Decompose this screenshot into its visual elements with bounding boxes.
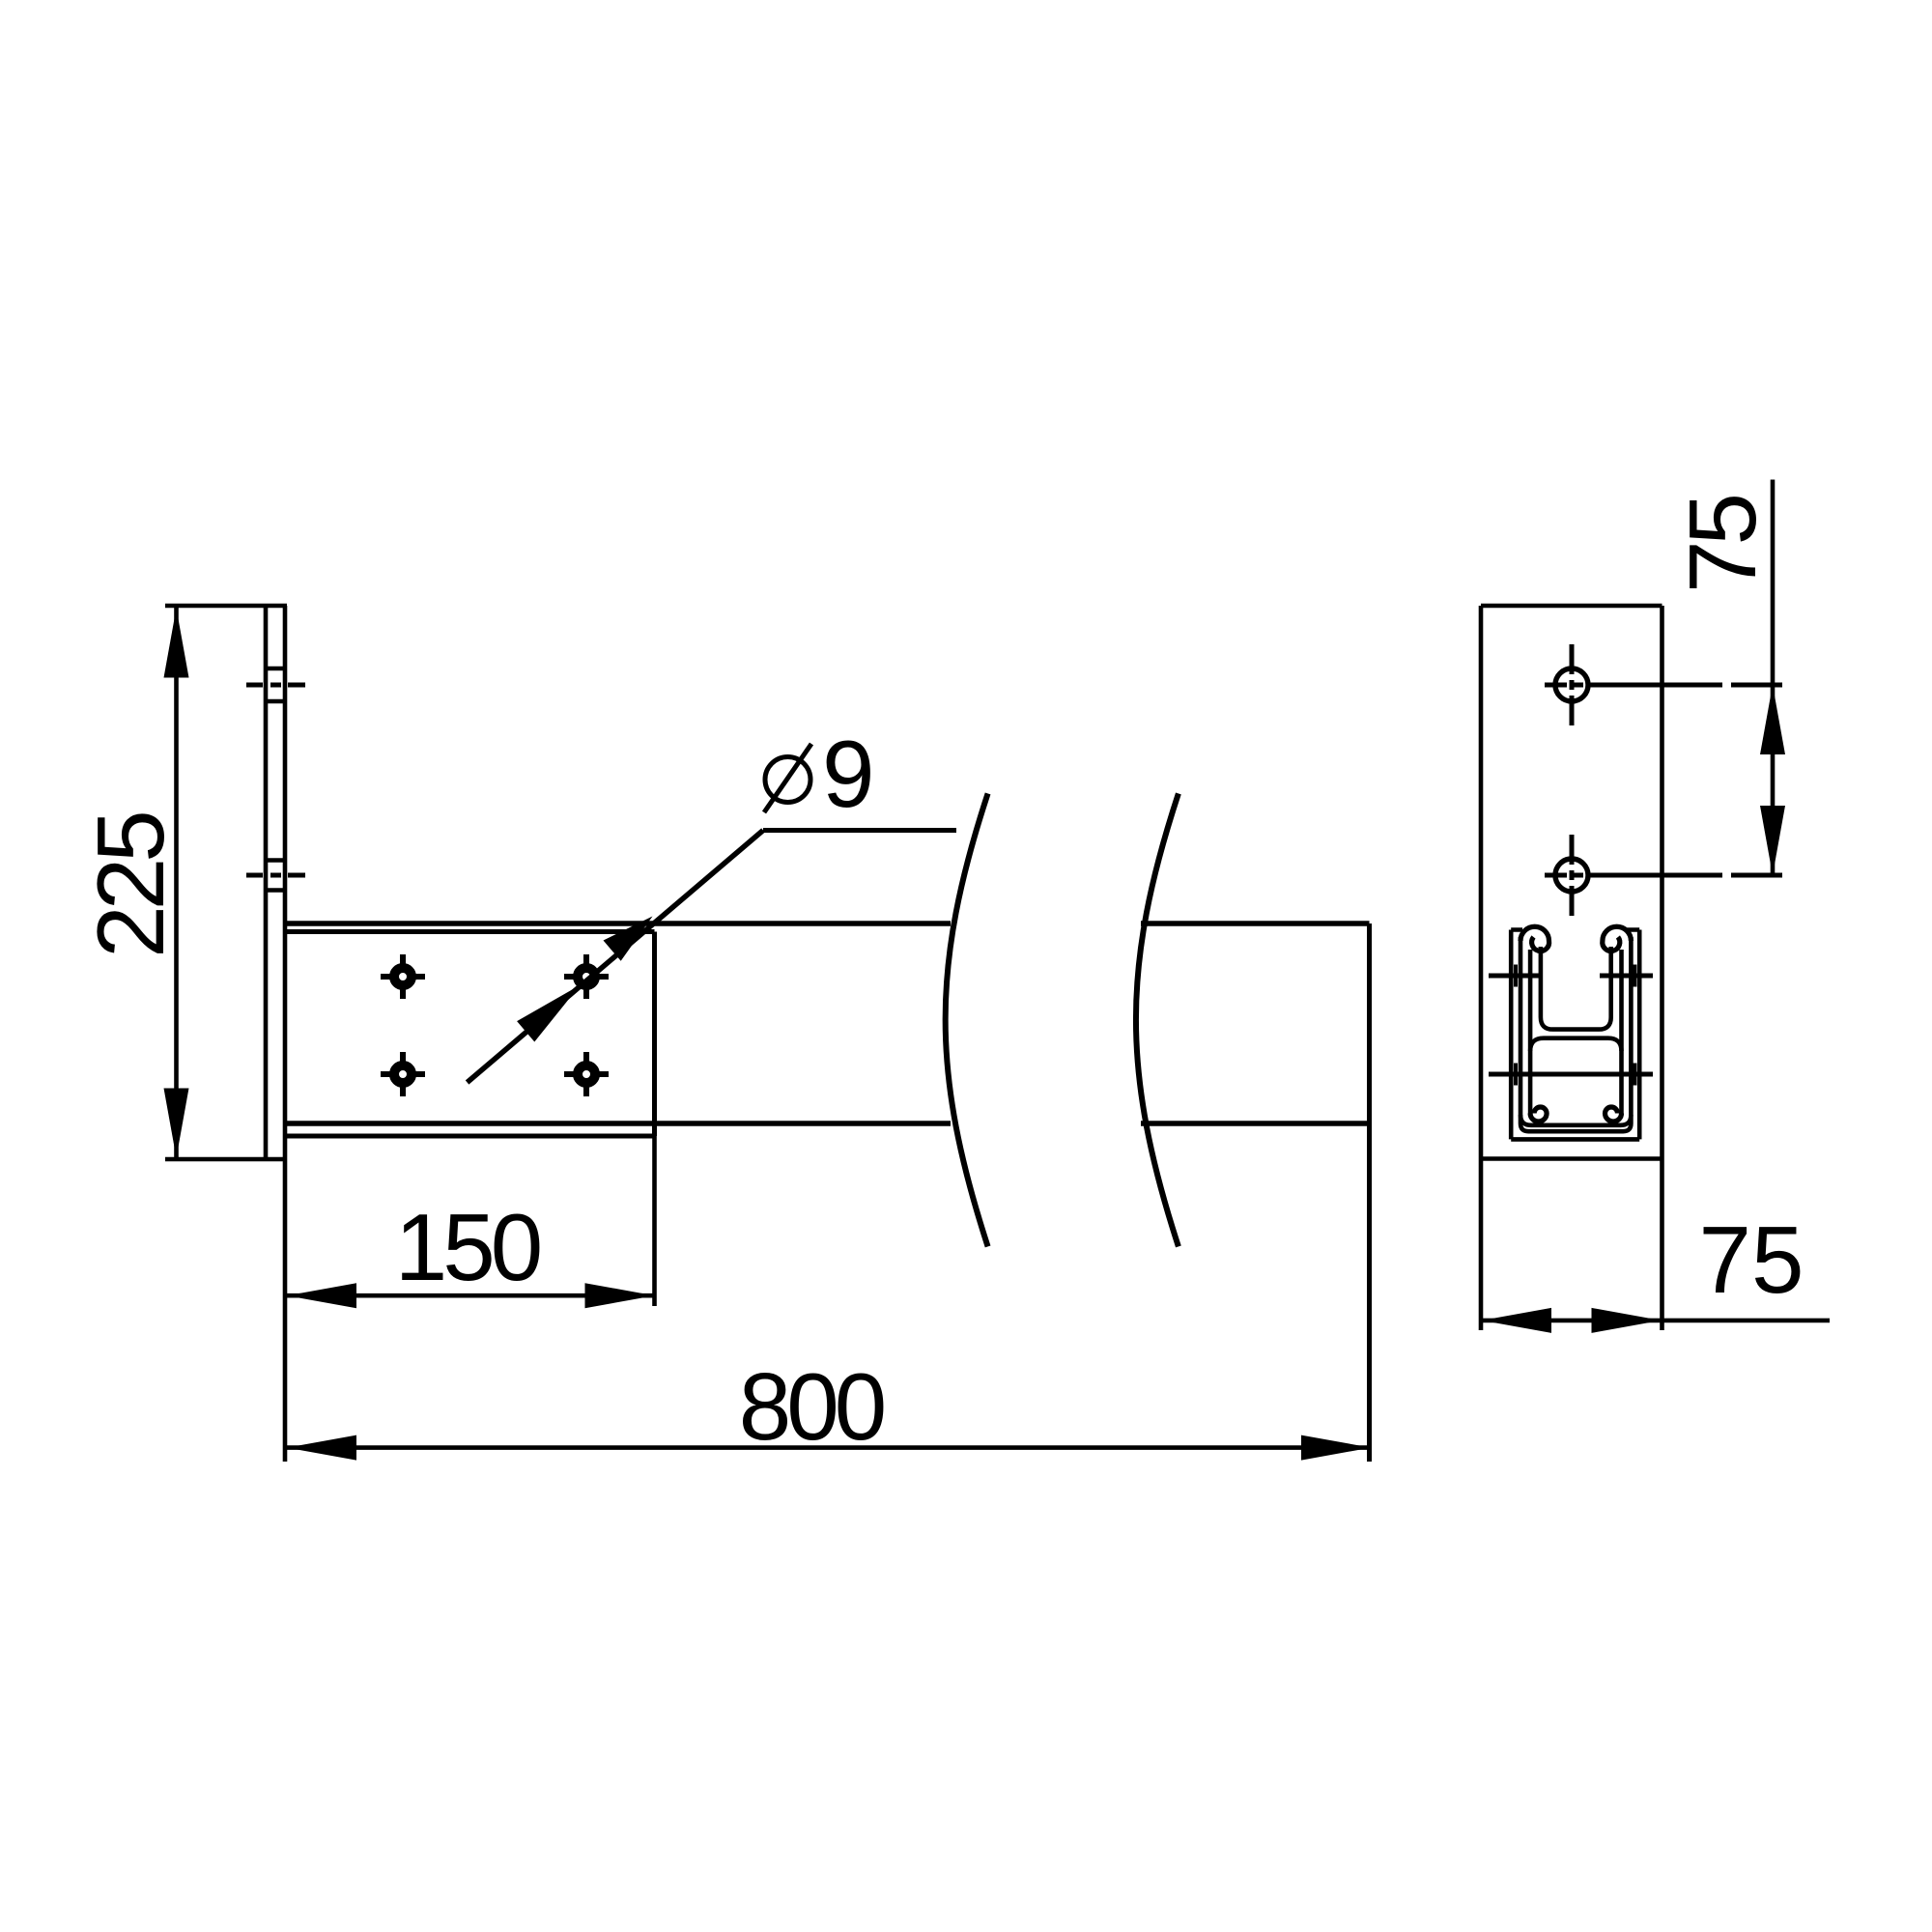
dimension 150 right extension line: [652, 1136, 657, 1306]
side hole 2 centerline vertical: [1570, 835, 1575, 916]
svg-text:225: 225: [77, 813, 184, 958]
leader arrowhead at hole: [517, 985, 580, 1042]
rail break line 1: [946, 793, 988, 1246]
dimension 150 right arrow: [585, 1283, 655, 1308]
bracket hole C (bottom-left): [381, 1052, 425, 1096]
side hole 1 centerline vertical: [1570, 644, 1575, 725]
plate hole 2 bottom edge: [267, 888, 284, 892]
rail profile right wall inner edge: [1619, 950, 1624, 1114]
dimension 75 (plate width) line: [1481, 1319, 1830, 1323]
bracket hole D (bottom-right): [564, 1052, 609, 1096]
rail profile bottom-right curl: [1605, 1107, 1622, 1122]
dimension 225 top arrow: [164, 609, 189, 678]
dimension 150 left arrow: [287, 1283, 356, 1308]
leader line for hole callout: [468, 831, 763, 1083]
rail right end edge + 800 right extension line: [1367, 923, 1372, 1462]
rail top edge (right segment): [1141, 921, 1370, 926]
dimension 225 line: [174, 608, 179, 1157]
side hole 1 circle: [1555, 668, 1588, 701]
diameter symbol of label: [764, 744, 811, 812]
dimension 225 bottom arrow: [164, 1089, 189, 1158]
svg-text:800: 800: [739, 1353, 884, 1460]
dimension 150 line: [287, 1293, 655, 1298]
leader shoulder line: [763, 828, 956, 833]
rail profile upper cavity: [1541, 947, 1611, 1030]
plate hole 1 bottom edge: [267, 699, 284, 703]
bracket end view bottom edge: [1511, 1137, 1639, 1142]
bracket end view right edge: [1637, 930, 1642, 1140]
plate hole 2 top edge: [267, 858, 284, 862]
bracket plate top edge: [285, 929, 655, 934]
dimension 75 (plate width) left arrow: [1482, 1308, 1551, 1333]
plate bottom edge + 225 bottom extension line: [165, 1157, 283, 1162]
dimension 800 right arrow: [1301, 1435, 1371, 1461]
side hole 1 centerline horizontal + 75 extension: [1545, 683, 1782, 688]
side hole 2 circle: [1555, 859, 1588, 892]
dimension 800 left arrow: [287, 1435, 356, 1461]
plate top edge + 225 top extension line: [165, 604, 287, 609]
svg-text:75: 75: [1698, 1207, 1804, 1313]
bracket end view left edge: [1509, 930, 1514, 1140]
rail profile top-right lip curl: [1603, 926, 1632, 951]
bracket plate right edge: [652, 932, 657, 1137]
rail profile outer contour: [1520, 937, 1631, 1131]
rail profile bottom-left curl: [1530, 1107, 1547, 1122]
side hole 2 centerline horizontal + 75 extension: [1545, 873, 1782, 878]
dimension 800 line: [287, 1445, 1372, 1450]
bracket hole A (top-left): [381, 954, 425, 999]
plate hole 1 centerline (dash-dot): [246, 683, 305, 688]
bracket end view top edge segments: [1511, 927, 1639, 932]
rail profile cavity floor: [1520, 1115, 1631, 1125]
rail profile web lower line: [1530, 1038, 1621, 1051]
bracket hole hidden edges left: [1514, 965, 1518, 1086]
svg-text:9: 9: [822, 721, 870, 827]
dimension 75 (plate width) right arrow: [1592, 1308, 1662, 1333]
bracket plate bottom edge: [285, 1134, 655, 1139]
leader arrowhead at rail edge: [604, 917, 653, 961]
bracket hole row 2 centerline across profile: [1489, 1072, 1653, 1077]
bracket hole row 1 centerline across profile: [1489, 974, 1653, 979]
side plate top edge: [1481, 604, 1662, 609]
side plate right edge + extension down to 75 dim: [1660, 606, 1664, 1330]
rail top edge (left segment): [287, 921, 951, 926]
rail profile top-left lip curl: [1520, 926, 1549, 951]
rail break line 2: [1136, 793, 1179, 1246]
plate hole 1 top edge: [267, 667, 284, 670]
rail bottom edge (left segment): [287, 1121, 951, 1126]
svg-text:75: 75: [1669, 497, 1776, 594]
plate hole 2 centerline (dash-dot): [246, 873, 305, 878]
dimension 75 (hole spacing) down arrow: [1760, 806, 1785, 875]
bracket hole B (top-right): [564, 954, 609, 999]
mounting plate left edge: [264, 606, 269, 1159]
rail bottom edge (right segment): [1141, 1121, 1370, 1126]
side plate left edge + extension down to 75 dim: [1479, 606, 1484, 1330]
bracket hole hidden edges right: [1633, 965, 1636, 1086]
svg-text:150: 150: [395, 1194, 540, 1300]
side plate bottom edge: [1481, 1156, 1662, 1161]
dimension 75 (hole spacing) line: [1771, 480, 1776, 876]
dimension 75 (hole spacing) up arrow: [1760, 685, 1785, 754]
rail profile left wall inner edge: [1528, 950, 1533, 1114]
mounting plate right edge / shared extension line down to 800 dim: [283, 606, 288, 1462]
